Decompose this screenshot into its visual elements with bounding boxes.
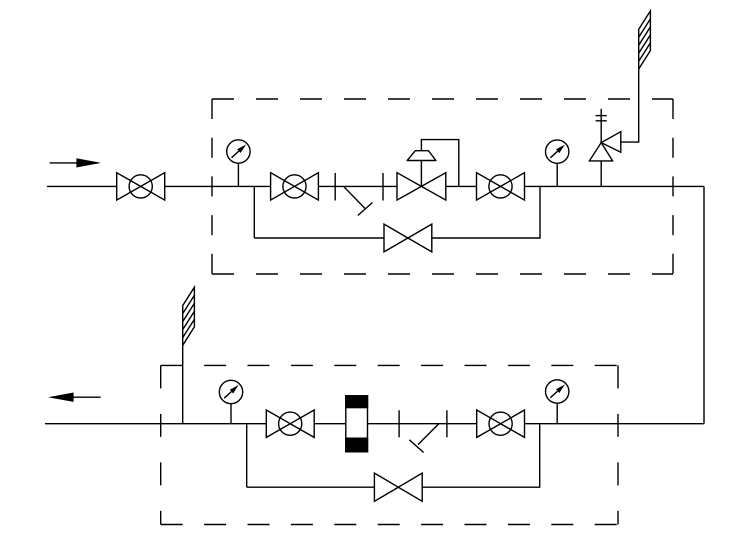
valve V1 inlet ball valve: [117, 173, 165, 200]
wire: bypass 2 left run: [247, 486, 375, 488]
impulse line from actuator to downstream pipe: [421, 140, 458, 187]
safety relief valve SV1 (angle type): [589, 109, 620, 186]
valve V2 ball valve: [271, 173, 319, 200]
pressure gauge PG3: [219, 380, 242, 423]
wire: right crossover pipe (high to low section): [703, 186, 705, 423]
wire: relief valve vent line: [621, 69, 639, 142]
outlet flow arrow: [48, 393, 101, 402]
wire: outlet pipe segment: [45, 423, 266, 425]
wire: pipe V5 to meter: [314, 423, 346, 425]
top regulator-line dashed enclosure: [212, 99, 673, 274]
valve V6 ball valve: [477, 410, 525, 437]
wire: pipe V3 to right corner: [525, 185, 705, 187]
regulator diaphragm actuator: [407, 151, 436, 161]
pressure gauge PG4: [546, 380, 569, 424]
wire: pipe V6 to right corner: [525, 423, 705, 425]
pressure regulator REG1 body: [397, 161, 446, 201]
inlet flow arrow: [50, 158, 101, 167]
gas flow meter FM1: [346, 396, 368, 452]
vent stack flag (top right): [639, 11, 651, 69]
purge/drain fitting (flanges with drain): [335, 173, 383, 216]
valve V5 ball valve: [266, 410, 314, 437]
wire: inlet pipe segment: [47, 185, 117, 187]
wire: pipe V2 to regulator: [318, 185, 397, 187]
wire: pipe meter to V6: [368, 423, 477, 425]
vent stack flag (left): [183, 287, 195, 345]
pressure gauge PG2: [546, 140, 569, 186]
vent stack line (left): [182, 345, 184, 423]
wire: bypass 1 takeoff drop: [253, 186, 255, 238]
valve V3 ball valve: [477, 173, 525, 200]
wire: pipe V1 to V2: [165, 185, 271, 187]
wire: pipe regulator to V3: [446, 185, 477, 187]
bypass valve V7: [374, 473, 422, 501]
wire: bypass 2 right run and riser: [422, 424, 540, 488]
pressure gauge PG1: [227, 140, 250, 187]
wire: bypass 1 right run and riser: [432, 186, 540, 238]
purge/drain fitting (bottom, mirrored): [399, 410, 447, 452]
bypass valve V4: [384, 224, 432, 252]
wire: bypass 1 left run: [254, 237, 384, 239]
wire: bypass 2 takeoff drop: [246, 424, 248, 488]
bottom metering-line dashed enclosure: [161, 365, 618, 524]
